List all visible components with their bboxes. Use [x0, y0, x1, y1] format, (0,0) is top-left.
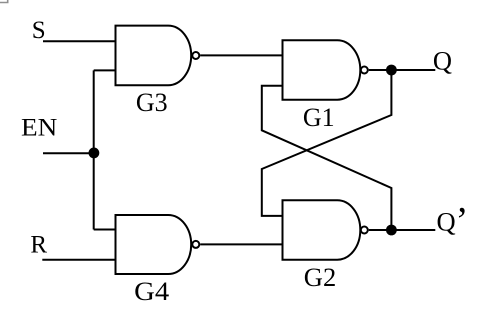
svg-text:G2: G2	[304, 263, 336, 292]
svg-text:R: R	[30, 231, 47, 258]
svg-text:S: S	[32, 17, 46, 44]
svg-text:Q’: Q’	[437, 200, 469, 242]
svg-text:G4: G4	[134, 277, 169, 306]
svg-text:G1: G1	[303, 103, 335, 132]
svg-text:Q: Q	[433, 45, 452, 75]
svg-text:G3: G3	[136, 88, 168, 117]
svg-text:EN: EN	[21, 115, 57, 142]
